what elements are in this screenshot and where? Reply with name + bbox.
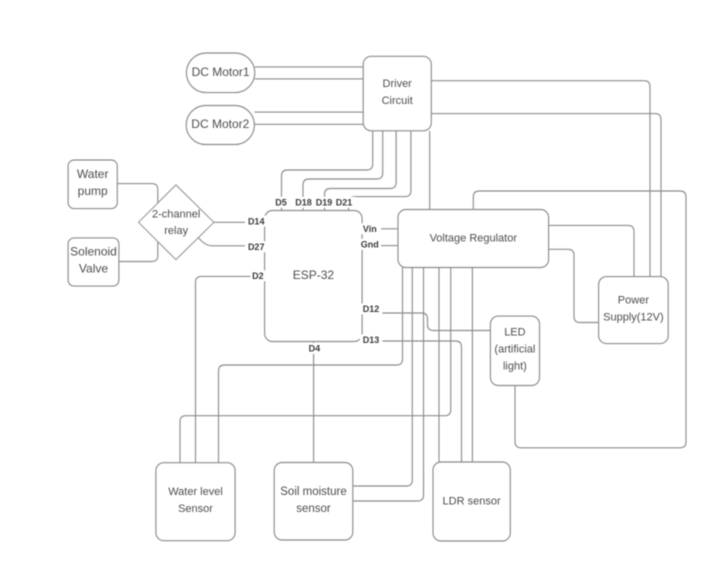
wire Voltage Regulator to LDR sensor (1) — [438, 268, 440, 463]
svg-text:ESP-32: ESP-32 — [293, 268, 335, 282]
svg-text:LDR sensor: LDR sensor — [443, 495, 501, 507]
svg-text:light): light) — [503, 361, 527, 373]
wire Voltage Regulator to Water level Sensor (2) — [180, 268, 451, 463]
wire Driver Circuit to ESP-32 pin D19 — [325, 131, 397, 211]
wire Driver Circuit to Power Supply top (1) — [431, 81, 650, 277]
svg-text:D12: D12 — [363, 304, 380, 314]
svg-text:D14: D14 — [248, 216, 265, 226]
wire Voltage Regulator to Power Supply top — [549, 225, 634, 276]
relay 2-channel K1 (diamond) — [139, 185, 214, 260]
svg-text:Sensor: Sensor — [178, 503, 213, 515]
svg-text:sensor: sensor — [296, 503, 331, 515]
pin label D27 — [245, 241, 268, 252]
svg-text:D5: D5 — [275, 198, 287, 208]
box DC Motor2 — [186, 106, 254, 145]
pin label Vin — [359, 223, 382, 234]
svg-text:Water level: Water level — [168, 486, 223, 498]
svg-text:DC Motor1: DC Motor1 — [192, 65, 250, 79]
svg-text:D4: D4 — [309, 344, 321, 354]
pin label D13 — [360, 335, 383, 346]
box Solenoid Valve — [68, 238, 119, 286]
box DC Motor1 — [186, 53, 254, 93]
svg-text:(artificial: (artificial — [494, 344, 535, 356]
svg-text:relay: relay — [164, 225, 188, 237]
wire DC Motor2 to Driver Circuit (upper) — [254, 111, 363, 113]
box Voltage Regulator U3 — [398, 210, 549, 268]
svg-text:Vin: Vin — [363, 224, 377, 234]
wire ESP-32 pin D2 to Water level Sensor — [196, 276, 265, 462]
box Soil moisture sensor — [274, 463, 353, 541]
svg-text:2-channel: 2-channel — [152, 209, 200, 221]
wire ESP-32 Gnd to Voltage Regulator — [362, 245, 398, 247]
wire Driver Circuit to Power Supply top (2) — [431, 114, 661, 277]
pin label D19 — [313, 197, 336, 208]
wire DC Motor1 to Driver Circuit (upper) — [255, 66, 363, 68]
pin label D21 — [333, 197, 356, 208]
wire ESP-32 pin D13 to LDR sensor — [362, 341, 461, 462]
svg-text:Supply(12V): Supply(12V) — [603, 312, 664, 324]
pin label Gnd — [359, 239, 382, 250]
svg-text:Circuit: Circuit — [382, 95, 413, 107]
wire Driver Circuit to ESP-32 pin D18 — [303, 131, 383, 211]
svg-text:LED: LED — [504, 327, 525, 339]
svg-text:D21: D21 — [336, 198, 353, 208]
pin label D4 — [307, 343, 322, 354]
svg-text:DC Motor2: DC Motor2 — [191, 117, 249, 131]
box Water level Sensor — [156, 463, 235, 541]
svg-text:D13: D13 — [363, 335, 380, 345]
wire ESP-32 Vin to Voltage Regulator — [362, 228, 398, 230]
svg-text:pump: pump — [78, 184, 108, 198]
wire Voltage Regulator to Power Supply left — [549, 249, 599, 322]
svg-text:Solenoid: Solenoid — [70, 245, 117, 259]
wire DC Motor2 to Driver Circuit (lower) — [254, 123, 363, 125]
wire Voltage Regulator to Soil moisture sensor (2) — [353, 268, 423, 502]
svg-text:Power: Power — [618, 295, 650, 307]
wire Voltage Regulator to Water level Sensor (1) — [219, 268, 403, 463]
box Driver Circuit U1 — [363, 56, 431, 131]
pin label D12 — [360, 304, 383, 315]
svg-text:Soil moisture: Soil moisture — [280, 486, 346, 498]
svg-text:D18: D18 — [295, 198, 312, 208]
wire Driver Circuit to ESP-32 pin D21 — [349, 131, 411, 211]
pin label D5 — [274, 197, 289, 208]
box Water pump — [68, 160, 117, 209]
box LDR sensor — [433, 462, 510, 541]
wire Driver Circuit to Voltage Regulator top — [429, 131, 431, 210]
box ESP-32 U2 — [265, 211, 363, 342]
svg-text:Driver: Driver — [383, 78, 413, 90]
svg-text:Gnd: Gnd — [361, 240, 379, 250]
wire Driver Circuit to ESP-32 pin D5 — [282, 131, 373, 211]
box LED artificial light — [490, 316, 539, 385]
svg-text:D19: D19 — [316, 198, 333, 208]
wire Solenoid Valve to relay — [119, 242, 158, 262]
wire DC Motor1 to Driver Circuit (lower) — [255, 78, 363, 80]
wire Voltage Regulator to Soil moisture sensor (1) — [353, 268, 412, 487]
wire Water pump to relay — [117, 184, 158, 203]
pin label D2 — [250, 270, 265, 281]
svg-text:Valve: Valve — [79, 262, 108, 276]
wire ESP-32 pin D4 to Soil moisture sensor — [313, 342, 315, 463]
wire relay to ESP-32 pin D27 — [199, 238, 265, 246]
pin label D18 — [292, 197, 315, 208]
wire ESP-32 pin D12 to LED — [362, 313, 490, 331]
svg-text:Water: Water — [77, 167, 109, 181]
wire LED to Voltage Regulator loop — [473, 191, 686, 448]
box Power Supply 12V — [599, 277, 669, 344]
pin label D14 — [245, 216, 268, 227]
wire relay to ESP-32 pin D14 — [214, 221, 265, 223]
wire Voltage Regulator to LDR sensor (2) — [471, 268, 473, 463]
svg-text:D27: D27 — [248, 242, 265, 252]
svg-text:Voltage Regulator: Voltage Regulator — [430, 232, 518, 244]
svg-text:D2: D2 — [252, 271, 264, 281]
